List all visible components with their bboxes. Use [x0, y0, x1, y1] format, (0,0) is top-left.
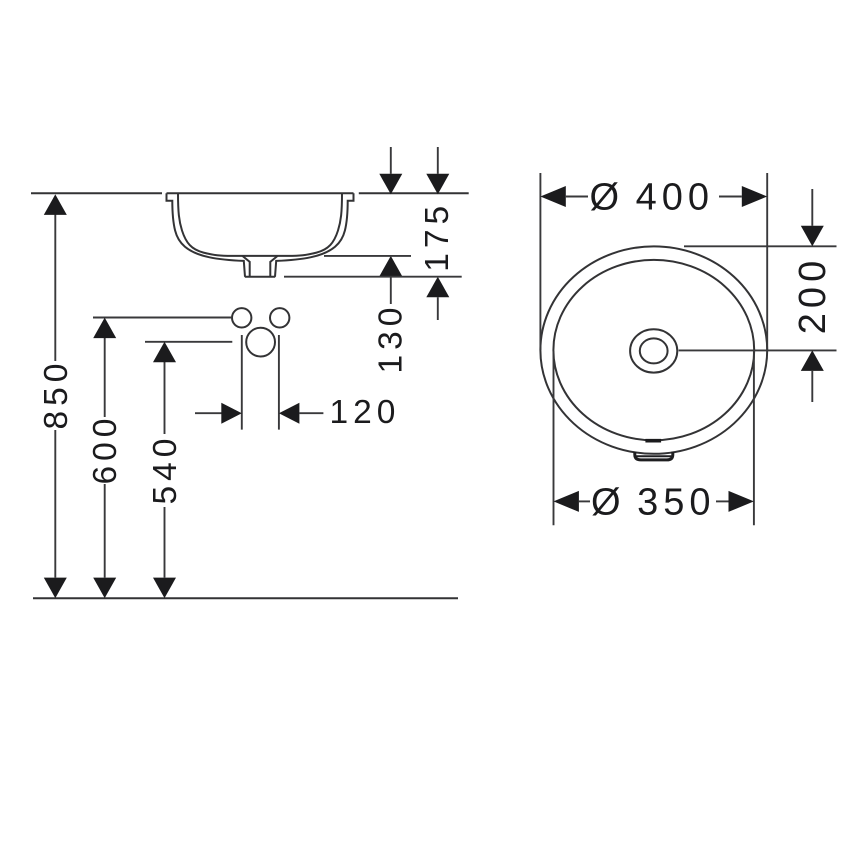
svg-text:Ø 350: Ø 350: [591, 482, 716, 524]
dim 540 arrow down: [153, 578, 176, 599]
reference line to small holes: [93, 317, 232, 319]
dim 600 arrow down: [93, 578, 116, 599]
svg-text:175: 175: [419, 201, 456, 272]
dim 120 tail left: [195, 412, 222, 414]
svg-text:850: 850: [38, 359, 75, 430]
top view inner rim ellipse: [553, 260, 754, 440]
dia400 extension line right: [766, 173, 768, 350]
svg-text:130: 130: [373, 303, 410, 374]
dim 120 extension line right: [278, 335, 280, 430]
reference line drain bottom level: [284, 276, 462, 278]
dim 200 lower tail: [811, 371, 813, 402]
dim 175 lower tail: [437, 297, 439, 320]
dim 175 upper tail: [437, 147, 439, 174]
svg-text:Ø 400: Ø 400: [590, 177, 715, 219]
dim 120 extension line left: [241, 335, 243, 430]
overflow bracket mid line: [636, 455, 671, 457]
dim 200 arrow up: [801, 350, 824, 371]
dim 130 lower tail: [390, 276, 392, 304]
dia350 tail left: [579, 500, 590, 502]
reference line bowl bottom level: [324, 255, 411, 257]
dim 120 arrow right-pointing: [221, 403, 242, 424]
dim 120 arrow left-pointing: [279, 403, 300, 424]
svg-text:540: 540: [147, 434, 184, 505]
dim 130 arrow up: [379, 256, 402, 277]
dim 850 shaft lower: [54, 430, 56, 578]
dim 200 upper tail: [811, 189, 813, 226]
basin rim top edge: [167, 192, 354, 194]
dim 120 tail right: [299, 412, 323, 414]
basin inner bowl: [178, 193, 342, 256]
dia350 extension line right: [753, 351, 755, 525]
faucet hole small right: [270, 308, 289, 327]
dia400 tail left: [566, 196, 588, 198]
svg-text:600: 600: [87, 414, 124, 485]
dim 540 arrow up: [153, 342, 176, 363]
counter line right segment: [359, 192, 469, 194]
dim 540 shaft lower: [164, 507, 166, 578]
basin outer wall right with flange: [275, 193, 354, 276]
dia400 arrow left-pointing: [540, 186, 565, 207]
dim 850 shaft upper: [54, 215, 56, 362]
reference line to large hole: [145, 341, 232, 343]
dim 600 arrow up: [93, 318, 116, 339]
dim 850 arrow down: [44, 578, 67, 599]
dim 600 shaft upper: [104, 338, 106, 417]
dia350 arrow left-pointing: [554, 491, 579, 512]
dim 130 upper tail: [390, 147, 392, 174]
dim 130 arrow down: [379, 174, 402, 195]
dim 850 arrow up: [44, 194, 67, 215]
overflow bracket detail: [635, 452, 673, 460]
dim 600 shaft lower: [104, 484, 106, 578]
counter line left segment: [31, 192, 162, 194]
dim 200 center reference line: [679, 349, 837, 351]
drain inner wall right: [270, 256, 277, 277]
dim 175 arrow up: [426, 277, 449, 298]
dia350 extension line left: [553, 351, 555, 525]
drain pipe bottom: [245, 276, 275, 278]
dim 200 top reference line: [684, 245, 837, 247]
faucet hole small left: [232, 308, 251, 327]
basin outer wall left with flange: [167, 193, 246, 276]
dia400 extension line left: [539, 173, 541, 350]
faucet hole large: [246, 328, 275, 357]
top view outer rim ellipse: [540, 246, 767, 453]
dim 540 shaft upper: [164, 362, 166, 434]
dia400 arrow right-pointing: [742, 186, 767, 207]
svg-text:120: 120: [330, 394, 401, 431]
overflow dash on inner rim: [645, 439, 661, 443]
top view drain outer: [630, 329, 677, 372]
svg-text:200: 200: [792, 256, 834, 334]
dim 200 arrow down: [801, 226, 824, 247]
top view drain inner: [640, 338, 668, 363]
dia400 tail right: [719, 196, 742, 198]
dim 175 arrow down: [426, 174, 449, 195]
floor line: [33, 597, 458, 599]
drain inner wall left: [242, 256, 249, 277]
dia350 tail right: [716, 500, 729, 502]
dia350 arrow right-pointing: [729, 491, 754, 512]
